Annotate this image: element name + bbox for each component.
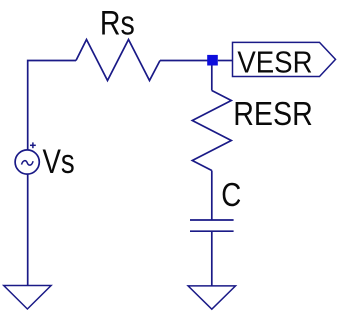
svg-text:Rs: Rs: [100, 4, 135, 42]
wire top-left from Rs to source: [28, 61, 76, 151]
svg-text:C: C: [221, 177, 241, 214]
wire RESR to capacitor: [211, 171, 213, 221]
node VESR junction: [207, 55, 218, 66]
label C: [221, 177, 241, 214]
voltage source Vs: [15, 142, 39, 174]
ground left: [4, 286, 51, 310]
label Rs: [100, 4, 135, 42]
net flag VESR: [233, 42, 336, 76]
svg-text:VESR: VESR: [237, 45, 312, 80]
label RESR: [233, 95, 313, 133]
label Vs: [43, 142, 75, 181]
svg-text:Vs: Vs: [43, 142, 75, 181]
capacitor C: [190, 220, 234, 231]
wire capacitor to ground: [211, 231, 213, 286]
wire source to ground: [27, 174, 29, 286]
wire Rs to node: [160, 60, 208, 62]
ground right: [188, 286, 235, 309]
wire node to RESR: [211, 66, 213, 91]
svg-text:RESR: RESR: [233, 95, 313, 133]
wire node to net flag: [218, 60, 233, 62]
resistor Rs: [76, 40, 160, 81]
resistor RESR: [192, 91, 231, 171]
label VESR: [237, 45, 312, 80]
